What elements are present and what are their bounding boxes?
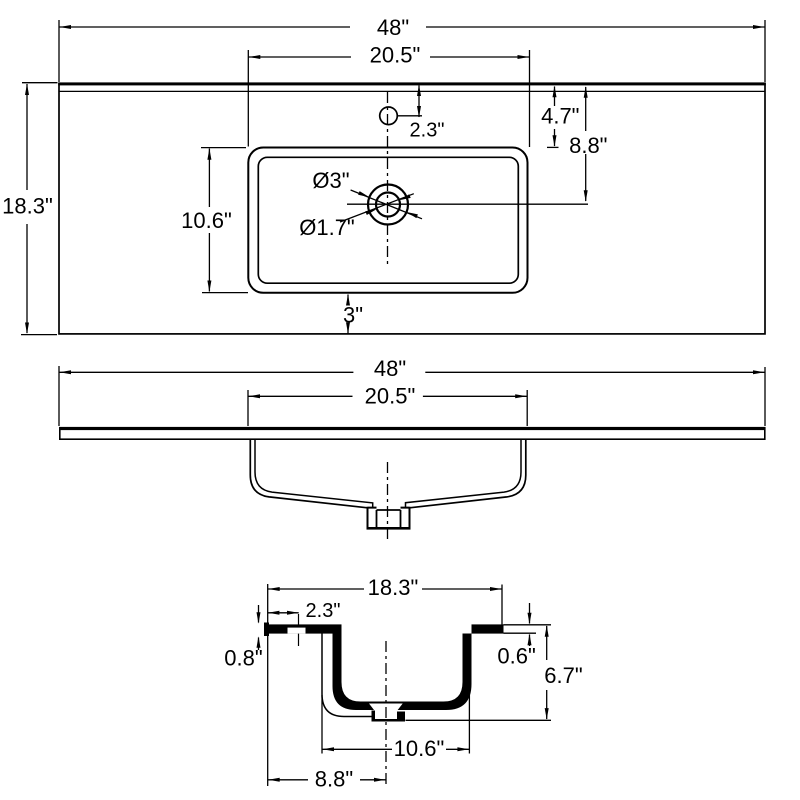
sink bowl section cut wall (thick black band) [333,634,472,711]
dimension 10.6in section: left extension line [321,695,323,754]
svg-text:2.3": 2.3" [306,600,341,622]
counter flange right (section cut, solid) [472,624,504,633]
counter top outline (plan view) [59,84,765,334]
counter top front edge thick line [58,82,766,85]
dimension 10.6in top: lower extension line [202,292,248,294]
dimension 18.3in section: left extension line (full height) [267,584,269,786]
dimension 2.3in top: dimension line with arrows [418,86,420,118]
dimension 20.5in top: right extension line [529,50,531,147]
leader line for diameter 1.7in [340,194,414,222]
svg-text:4.7": 4.7" [541,103,579,128]
svg-text:0.6": 0.6" [497,643,535,668]
dimension 3in: dimension line with arrows [347,295,349,304]
dimension 10.6in top: dimension line [208,149,210,208]
sink bowl front view outer right contour [410,440,526,508]
dimension 48in top: dimension line [59,26,350,28]
svg-text:Ø3": Ø3" [312,168,349,193]
sink basin inner rounded rectangle [258,157,518,283]
sink bowl front view inner right contour [406,440,522,508]
sink basin outer rounded rectangle [248,148,527,293]
dimension 6.7in: dimension line [546,626,548,660]
drain stub front bottom edge [367,527,411,529]
svg-text:8.8": 8.8" [315,766,353,791]
faucet hole centerline section [298,614,300,646]
drain stub front view outer body [368,507,410,528]
drain stub section [372,711,406,722]
dimension 2.3in section: dimension line with outward arrows [268,612,299,614]
dimension 48in front: right extension line [764,367,766,426]
dimension 10.6in section: dimension line [322,748,392,750]
svg-text:48": 48" [377,15,409,40]
drain countersink recess (section) [369,704,403,712]
dimension 10.6in top: upper extension line [201,147,246,149]
svg-text:18.3": 18.3" [368,575,419,600]
svg-text:20.5": 20.5" [370,42,421,67]
dimension 48in top: right extension line [764,20,766,82]
dimension 10.6in section: right extension line [468,685,470,754]
dimension 0.8in: arrows and shafts [258,605,260,623]
dimension 18.3in: dimension line [26,84,28,190]
svg-text:8.8": 8.8" [569,133,607,158]
svg-text:Ø1.7": Ø1.7" [299,215,355,240]
dimension 8.8in top: dimension line [585,87,587,131]
dimension 18.3in section: dimension line [268,588,364,590]
sink bowl front view inner left contour [255,440,373,508]
dimension 48in front: dimension line [59,371,353,373]
dimension 20.5in top: dimension line [248,56,351,58]
flange bottom extension line right [504,632,537,634]
svg-text:10.6": 10.6" [394,736,445,761]
dimension 48in top: left extension line [58,20,60,82]
drain horizontal centerline [347,203,588,205]
flange top extension line right [504,624,552,626]
drain centerline section (dash-dot) [385,641,387,788]
counter flange left (section cut, solid) [264,624,342,633]
svg-text:3": 3" [343,302,363,327]
faucet hole gap in flange [288,628,306,634]
dimension 20.5in front: right extension line [526,390,528,426]
dimension 18.3in: top extension tick [22,82,58,84]
counter slab front view outline [60,428,765,439]
counter top edge inner line [59,90,765,92]
svg-text:20.5": 20.5" [365,383,416,408]
dimension 18.3in section: right extension line [501,585,503,631]
sink bowl section outer thin contour [322,634,372,717]
dimension 20.5in front: dimension line [248,395,353,397]
bottom extension line right (section) [406,719,552,721]
dimension 18.3in: bottom extension tick [21,334,57,336]
svg-text:6.7": 6.7" [544,663,582,688]
dimension 8.8in section: dimension line [268,779,308,781]
dimension 20.5in front: left extension line [247,390,249,426]
front view centerline (dash-dot) [387,462,389,542]
svg-text:18.3": 18.3" [2,193,53,218]
dimension 0.6in: arrows and shafts [529,603,531,624]
drain vertical centerline (dash-dot) [387,92,389,265]
svg-text:2.3": 2.3" [410,120,445,142]
faucet hole leader line [397,115,422,117]
leader line for diameter 3in [351,190,422,219]
dimension 48in front: left extension line [58,366,60,426]
counter slab front top edge thick line [59,427,766,430]
drain inner circle [376,193,400,217]
drain outer circle [368,185,408,225]
svg-text:10.6": 10.6" [181,208,232,233]
dimension 4.7in: extension tick at sink edge [547,146,559,148]
dimension 20.5in top: left extension line [247,50,249,147]
drain stub front view inner body [377,510,401,528]
sink bowl front view outer left contour [250,440,367,508]
faucet hole circle [380,107,398,125]
svg-text:0.8": 0.8" [224,645,262,670]
dimension 4.7in: dimension line [554,87,556,107]
counter edge lip left end (section) [264,623,269,637]
svg-text:48": 48" [374,356,406,381]
